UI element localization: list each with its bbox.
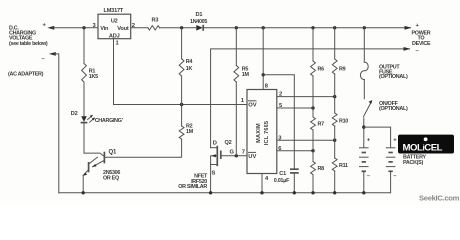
value label R5 1M <box>242 67 250 79</box>
wire: U2 Vout to R3 <box>131 27 148 29</box>
junction: pin2 at R9/R10 <box>333 95 336 98</box>
svg-text:+: + <box>367 137 371 143</box>
junction: R11 at rail <box>333 191 336 194</box>
svg-text:ICL 7665: ICL 7665 <box>264 121 270 146</box>
junction: R1 branch on input wire <box>82 26 85 29</box>
svg-text:1M: 1M <box>242 72 250 78</box>
svg-text:(AC ADAPTER): (AC ADAPTER) <box>8 71 44 77</box>
switch S1 ON/OFF <box>364 100 373 117</box>
junction: C1 at rail <box>293 191 296 194</box>
svg-text:(OPTIONAL): (OPTIONAL) <box>379 106 408 112</box>
svg-text:LM317T: LM317T <box>104 8 124 14</box>
logo MOLICEL battery pack <box>398 135 454 154</box>
wire: D2 cathode to Q1 collector <box>83 123 85 154</box>
svg-text:DEVICE: DEVICE <box>412 41 431 47</box>
svg-text:1N4005: 1N4005 <box>190 19 207 25</box>
diode D1 <box>196 25 203 31</box>
svg-text:Q2: Q2 <box>225 140 232 146</box>
wire: pin 5 to R6/R7 node <box>277 107 313 109</box>
wire: input + to U2 Vin <box>53 27 98 29</box>
wire: Q1 emitter to ground rail <box>82 175 84 192</box>
resistor R10 <box>332 113 337 126</box>
pin label UV (overbar) inside U1 <box>248 152 256 160</box>
svg-text:1M: 1M <box>186 129 194 135</box>
wire: ADJ node down to R2 <box>181 105 183 127</box>
node: output minus arrow <box>404 47 411 51</box>
svg-text:R3: R3 <box>152 18 159 24</box>
resistor R2 <box>179 126 184 139</box>
wire: pin 3 to R10/R11 node <box>277 139 335 141</box>
wire: R11 to ground rail <box>334 171 336 193</box>
junction: battery parallel node <box>362 125 365 128</box>
op-amp/supervisor U1 MAXIM ICL7665 <box>247 90 277 174</box>
wire: pin8 node right and down to C1 <box>263 75 294 169</box>
polarity labels battery BT1 <box>367 137 371 179</box>
junction: R6 column on top rail <box>311 26 314 29</box>
junction: pin4 at rail <box>260 191 263 194</box>
wire: BT1 minus to ground rail <box>363 171 365 193</box>
wire: R6 to R7 <box>312 76 314 117</box>
wire: R10 to R11 <box>334 126 336 158</box>
resistor R1 <box>82 64 87 83</box>
junction: IC pin8 column on top rail <box>262 26 265 29</box>
value label 2N5306 OR EQ <box>103 170 120 181</box>
svg-text:R6: R6 <box>318 67 325 73</box>
wire: Q2 gate to IC pin 7 <box>221 155 247 157</box>
junction: pin6 at R7/R8 <box>311 149 314 152</box>
junction: pin3 at R10/R11 <box>333 139 336 142</box>
svg-text:R11: R11 <box>339 163 348 169</box>
node: D.C. charging voltage input label <box>9 25 48 47</box>
resistor R4 <box>179 59 184 76</box>
svg-text:MOLiCEL: MOLiCEL <box>403 143 443 154</box>
polarity labels battery BT2 <box>393 137 397 179</box>
junction: R5 column on top rail <box>235 26 238 29</box>
junction: R5 pull-up joins gate wire <box>235 154 238 157</box>
svg-text:R4: R4 <box>186 59 193 65</box>
wire: negative output line from Q2 drain column to output arrow <box>211 49 410 148</box>
svg-text:S: S <box>212 171 216 177</box>
label OUTPUT FUSE (OPTIONAL) <box>379 65 408 81</box>
svg-text:D2: D2 <box>71 111 78 117</box>
wire: switch bottom to battery node <box>363 118 365 148</box>
svg-text:G: G <box>230 150 235 156</box>
wire: top rail down to R4 <box>181 28 183 59</box>
svg-text:OR EQ: OR EQ <box>103 175 119 181</box>
wire: R4 to ADJ node <box>181 76 183 105</box>
value label R2 1M <box>186 124 194 135</box>
junction: R4/R2 on ADJ wire <box>180 103 183 106</box>
svg-text:OR SIMILAR: OR SIMILAR <box>178 184 207 190</box>
svg-text:MAXIM: MAXIM <box>256 123 262 143</box>
svg-text:2: 2 <box>279 91 282 97</box>
svg-text:C1: C1 <box>279 171 286 177</box>
wire: pin 4 stub to ground rail <box>261 174 263 193</box>
wire: R3 to D1 anode <box>160 27 197 29</box>
node: POWER TO DEVICE label <box>412 23 431 55</box>
svg-text:Vout: Vout <box>117 26 129 32</box>
wire: top rail down to R9 <box>334 28 336 59</box>
junction: R9 column on top rail <box>333 26 336 29</box>
junction: R4 branch at R3/D1 node <box>180 26 183 29</box>
junction: pin5 at R6/R7 <box>311 106 314 109</box>
regulator U2 LM317T <box>98 8 131 39</box>
wire: U2 ADJ pin down and right to ADJ node rail (to IC pin 1) <box>114 39 248 105</box>
svg-text:PACK(S): PACK(S) <box>403 160 423 166</box>
node: input minus terminal <box>42 52 56 62</box>
svg-text:7: 7 <box>242 149 245 155</box>
wire: input node down to R1 <box>83 28 85 64</box>
wire: pin 8 stub from top rail <box>262 28 264 90</box>
svg-text:2: 2 <box>132 23 135 29</box>
junction: Q1 emitter at rail <box>82 191 85 194</box>
svg-text:(OPTIONAL): (OPTIONAL) <box>379 74 408 80</box>
resistor R11 <box>332 158 337 171</box>
capacitor C1 <box>290 169 299 173</box>
resistor R3 <box>148 26 160 30</box>
wire: input - down to ground rail <box>55 54 59 193</box>
wire: bottom ground rail <box>59 192 391 194</box>
wire: R7 to R8 <box>312 130 314 162</box>
svg-text:R8: R8 <box>318 166 325 172</box>
resistor R7 <box>311 117 316 130</box>
svg-text:R10: R10 <box>339 119 348 125</box>
pin label OV (overbar) inside U1 <box>248 101 257 109</box>
junction: BT1 at rail <box>362 191 365 194</box>
value label R4 1K <box>186 59 193 72</box>
wire: BT2 minus to ground rail <box>390 171 392 193</box>
wire: C1 to ground rail <box>293 173 295 193</box>
wire: pin 6 to R7/R8 node <box>277 150 313 152</box>
label BATTERY PACK(S) <box>403 155 426 166</box>
battery BT1 <box>360 148 369 172</box>
wire: R9 to R10 <box>334 74 336 113</box>
svg-text:UV: UV <box>248 154 256 160</box>
wire: top rail down to fuse <box>363 28 365 62</box>
wire: Q1 base to R2 bottom <box>104 139 181 157</box>
svg-text:U2: U2 <box>111 18 118 24</box>
svg-text:ADJ: ADJ <box>109 34 120 40</box>
label ON/OFF (OPTIONAL) <box>379 101 408 112</box>
fuse F1 (output fuse) <box>360 62 368 79</box>
junction: C1 branch on pin8 column <box>262 73 265 76</box>
svg-text:D: D <box>213 140 217 146</box>
svg-text:OV: OV <box>248 103 257 109</box>
wire: R5 down to gate wire <box>235 82 237 156</box>
wire: battery node to battery 2 top <box>364 127 391 147</box>
resistor R6 <box>311 61 316 76</box>
svg-text:Vin: Vin <box>100 26 109 32</box>
resistor R5 <box>234 66 239 83</box>
wire: top rail down to R5 <box>235 28 237 66</box>
LED D2 <box>81 115 95 123</box>
wire: fuse to switch top contact <box>363 80 365 99</box>
svg-text:D1: D1 <box>196 12 203 18</box>
junction: fuse/battery column on top rail <box>363 26 366 29</box>
resistor R9 <box>332 59 337 74</box>
svg-text:R9: R9 <box>339 67 346 73</box>
svg-text:SeekIC.com: SeekIC.com <box>419 194 460 203</box>
wire: R1 to D2 anode <box>83 82 85 116</box>
svg-text:1K: 1K <box>186 66 193 72</box>
svg-text:1K5: 1K5 <box>89 74 98 80</box>
battery BT2 <box>386 148 395 172</box>
wire: top positive rail D1 to output arrow <box>203 27 410 29</box>
svg-text:(see table below): (see table below) <box>9 41 48 47</box>
junction: R8 at rail <box>311 191 314 194</box>
value label NFET IRF520 OR SIMILAR <box>178 174 208 190</box>
svg-text:0.01μF: 0.01μF <box>274 178 290 184</box>
svg-text:R7: R7 <box>318 122 325 128</box>
node: output plus arrow <box>405 26 412 30</box>
wire: pin 2 to R9/R10 node <box>277 96 335 98</box>
svg-text:’CHARGING’: ’CHARGING’ <box>94 118 124 124</box>
junction: Q2 source at rail <box>209 191 212 194</box>
value label R1 1K5 <box>89 68 98 79</box>
resistor R8 <box>311 162 316 175</box>
node: input plus terminal <box>43 23 55 30</box>
transistor Q1 (2N5306 darlington) <box>83 152 105 176</box>
svg-text:Q1: Q1 <box>109 150 117 156</box>
wire: R8 to ground rail <box>312 175 314 193</box>
transistor Q2 (NFET) <box>211 146 221 193</box>
wire: top rail down to R6 <box>312 28 314 61</box>
